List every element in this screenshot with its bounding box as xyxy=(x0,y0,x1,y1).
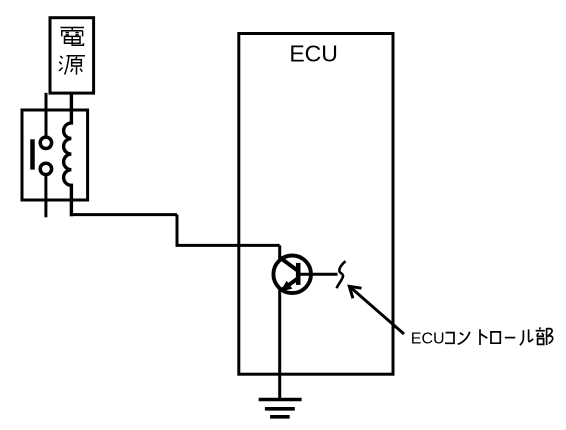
svg-text:ECU: ECU xyxy=(411,331,445,348)
svg-text:ECU: ECU xyxy=(289,41,338,67)
katakana n xyxy=(458,332,470,344)
wire jog (vertical) xyxy=(176,215,179,246)
wire down to transistor collector xyxy=(278,245,281,259)
katakana long vowel bar xyxy=(505,337,516,339)
transistor Q1 body xyxy=(273,255,311,293)
wire relay coil to jog (horizontal) xyxy=(70,213,177,216)
relay contact bottom terminal xyxy=(40,163,51,174)
katakana ro xyxy=(491,332,500,343)
wire emitter to ground xyxy=(278,290,281,399)
katakana ru xyxy=(520,329,533,345)
transistor Q1 base lead xyxy=(300,273,338,276)
break squiggle on base line xyxy=(337,261,346,288)
label 電源 (hand-drawn kanji) xyxy=(59,28,85,75)
annotation arrow shaft xyxy=(349,286,404,334)
wire jog to transistor collector (horizontal) xyxy=(176,244,280,247)
katakana ko xyxy=(445,333,454,344)
transistor Q1 base bar xyxy=(296,263,301,285)
transistor Q1 collector stroke xyxy=(280,257,297,270)
katakana to xyxy=(480,329,487,345)
wire power to relay coil + coil L1 xyxy=(64,93,72,216)
transistor Q1 emitter stroke xyxy=(282,279,297,290)
annotation arrow barbs xyxy=(349,286,361,298)
wire switch bottom terminal down xyxy=(44,176,47,218)
ECU box xyxy=(239,34,393,375)
relay contact top terminal xyxy=(40,137,51,148)
transistor Q1 emitter arrowhead xyxy=(281,281,293,292)
power source box B1 xyxy=(50,18,94,93)
relay box K1 xyxy=(22,110,88,200)
relay switch lever xyxy=(30,139,35,169)
ground xyxy=(259,398,302,402)
wire power to relay switch xyxy=(45,93,48,136)
kanji bu (部) xyxy=(539,327,542,329)
